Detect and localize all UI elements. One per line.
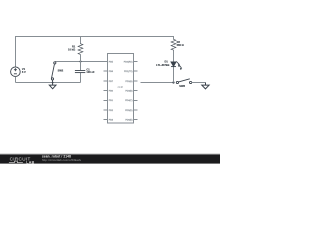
wire IC right pin to LED node [141, 82, 174, 84]
svg-text:LTL-307EE: LTL-307EE [156, 63, 169, 67]
svg-text:PD0(RX): PD0(RX) [124, 61, 133, 63]
voltage source V1 [11, 67, 21, 77]
label C1 100 nF [86, 67, 95, 74]
switch SW8 [176, 79, 191, 84]
junction dot switch/ground on bottom rail [52, 82, 54, 84]
node junction dot at R1/C1 [80, 61, 82, 63]
label D1 LTL-307EE [156, 60, 169, 67]
switch SW2 [51, 62, 56, 83]
LED D1 bottom lead [173, 67, 175, 83]
IC U1 box [108, 54, 134, 124]
svg-text:5 V: 5 V [22, 70, 26, 74]
svg-text:PD2(A): PD2(A) [125, 80, 132, 83]
svg-text:LAB: LAB [26, 161, 34, 165]
svg-text:PD1(TX): PD1(TX) [124, 71, 133, 73]
IC right pin stubs [134, 62, 138, 120]
ground G1 [49, 83, 56, 89]
ground G2 [202, 83, 209, 89]
label R1 10 kOhm [68, 44, 76, 51]
label R2 560 Ohm [177, 40, 184, 47]
svg-text:SW8: SW8 [179, 84, 185, 88]
IC left pin labels [109, 61, 114, 121]
CircuitLab logo [9, 156, 35, 164]
IC right pin labels [124, 61, 133, 121]
svg-text:http://circuitlab.com/c/63kadv: http://circuitlab.com/c/63kadv [42, 158, 82, 162]
resistor R1 zigzag [78, 44, 83, 55]
resistor R1 leads [80, 36, 82, 44]
wire left vertical from rail to V1 [15, 36, 17, 67]
IC left pin stubs [104, 62, 108, 120]
svg-text:560 Ω: 560 Ω [177, 43, 184, 47]
capacitor C1 plates [75, 71, 85, 73]
svg-text:PD6(E): PD6(E) [125, 120, 132, 122]
LED D1 emission arrows [176, 61, 182, 70]
wire bottom-left rail [16, 82, 81, 84]
label V1 5 V [22, 67, 26, 74]
LED D1 [171, 62, 176, 67]
svg-text:PD3(B): PD3(B) [125, 91, 132, 93]
wire SW8 to ground [192, 82, 206, 84]
svg-text:PD4(C): PD4(C) [125, 100, 133, 102]
resistor R2 zigzag [171, 39, 176, 50]
svg-text:10 kΩ: 10 kΩ [68, 47, 75, 51]
junction dot LED node [172, 81, 174, 83]
svg-text:2148: 2148 [118, 86, 124, 89]
capacitor C1 leads [80, 62, 82, 71]
svg-text:SW2: SW2 [58, 68, 64, 72]
svg-text:100 nF: 100 nF [86, 70, 95, 74]
svg-text:PD5(D): PD5(D) [125, 110, 133, 112]
wire top rail [16, 36, 174, 38]
wire V1 bottom to bottom rail [15, 77, 17, 83]
wire node row to IC pin1 [55, 61, 108, 63]
resistor R2 leads [173, 36, 175, 40]
